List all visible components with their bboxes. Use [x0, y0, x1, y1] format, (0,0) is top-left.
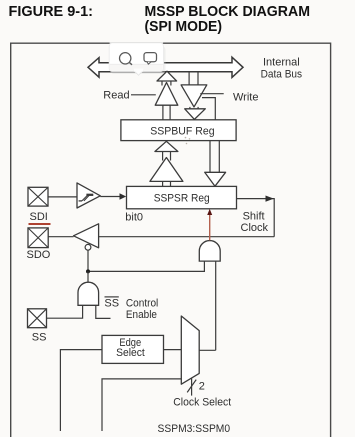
svg-text:Internal: Internal — [263, 57, 300, 69]
svg-text:Data Bus: Data Bus — [261, 68, 303, 80]
svg-text:Read: Read — [103, 90, 129, 102]
svg-text:Select: Select — [116, 347, 145, 359]
svg-text:(SPI MODE): (SPI MODE) — [145, 18, 223, 35]
svg-text:Clock Select: Clock Select — [173, 397, 231, 409]
svg-text:SSPBUF Reg: SSPBUF Reg — [150, 125, 214, 137]
svg-text:Write: Write — [233, 91, 258, 103]
svg-text:2: 2 — [199, 381, 205, 393]
svg-text:SSPM3:SSPM0: SSPM3:SSPM0 — [158, 423, 231, 435]
svg-text:SDI: SDI — [30, 211, 48, 223]
svg-text:FIGURE 9-1:: FIGURE 9-1: — [9, 3, 94, 20]
svg-text:SS: SS — [104, 298, 119, 310]
svg-text:Enable: Enable — [126, 309, 157, 321]
svg-text:Clock: Clock — [241, 222, 269, 234]
svg-text:Control: Control — [126, 298, 158, 310]
svg-text:SS: SS — [32, 332, 47, 344]
svg-text:bit0: bit0 — [125, 212, 143, 224]
svg-text:SDO: SDO — [27, 249, 51, 261]
svg-text:SSPSR Reg: SSPSR Reg — [154, 193, 210, 205]
